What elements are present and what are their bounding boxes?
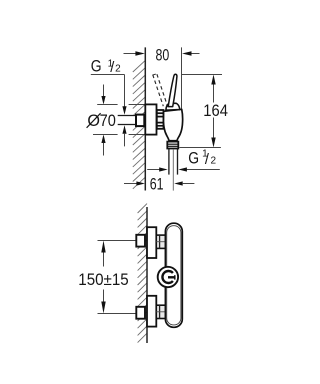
svg-text:61: 61 xyxy=(150,175,164,193)
svg-text:2: 2 xyxy=(115,64,121,75)
svg-text:2: 2 xyxy=(211,156,217,167)
svg-text:80: 80 xyxy=(156,46,170,64)
svg-text:G: G xyxy=(91,58,102,76)
svg-text:70: 70 xyxy=(100,112,116,130)
svg-text:G: G xyxy=(188,150,199,168)
svg-text:150±15: 150±15 xyxy=(78,271,128,289)
svg-text:164: 164 xyxy=(203,102,228,120)
